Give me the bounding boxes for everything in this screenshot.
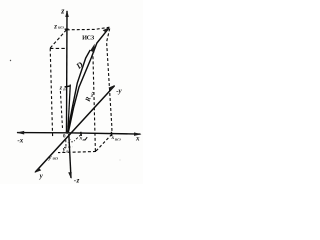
wire -z axis — [69, 134, 71, 178]
node arrowhead -x — [16, 131, 24, 135]
paper background — [0, 0, 143, 184]
svg-text:z: z — [59, 84, 63, 91]
svg-text:исз: исз — [115, 136, 121, 141]
wire dashed vertical edge of P box — [60, 91, 62, 130]
node arrowhead -z — [68, 172, 72, 179]
wire dashed y_p vertical — [65, 140, 67, 147]
node tick x_isz — [110, 132, 112, 136]
wire dashed base edge S' to y_isz — [58, 152, 96, 153]
svg-text:п: п — [83, 138, 85, 142]
svg-text:-x: -x — [17, 137, 23, 145]
svg-text:у: у — [62, 147, 66, 153]
wire dashed vertical S' up to satellite region — [93, 54, 96, 151]
svg-text:исз: исз — [53, 156, 59, 161]
node tick z_isz — [65, 28, 69, 30]
wire dashed top-left edge z_isz down-left to front corner — [50, 30, 67, 48]
wire dashed drop from satellite to x_isz — [107, 29, 112, 134]
node arrowhead D — [103, 27, 110, 32]
scan speckles — [10, 60, 11, 61]
svg-text:ИСЗ: ИСЗ — [82, 35, 95, 42]
svg-text:z: z — [53, 22, 57, 30]
wire z-axis — [66, 11, 69, 133]
node arrowhead +x — [134, 132, 142, 136]
svg-text:-y: -y — [116, 87, 122, 95]
svg-text:п: п — [71, 140, 73, 144]
node arrowhead z — [65, 10, 69, 17]
wire r_p (origin to point P) — [68, 85, 71, 134]
vector D (from origin bundle up to satellite corner) — [68, 28, 109, 133]
wire dashed x_p diag — [74, 135, 81, 141]
wire x-axis — [17, 133, 141, 135]
wire dashed horizontal corner to z-axis — [50, 47, 66, 49]
svg-text:-z: -z — [74, 175, 80, 184]
wire dashed front-left vertical box edge — [50, 48, 52, 136]
wire dashed top edge z_isz to satellite — [67, 27, 110, 30]
label R_isz — [84, 90, 95, 104]
wire dashed base edge x_isz to S' — [96, 134, 112, 151]
svg-text:у: у — [48, 154, 52, 161]
node arrowhead y — [34, 168, 41, 173]
wire dash fragment right of x_p — [85, 137, 87, 140]
node arrowhead -y — [109, 85, 116, 90]
node arrowhead R — [90, 44, 95, 53]
svg-text:п: п — [66, 149, 68, 153]
wire dashed y_p horizontal — [64, 146, 73, 149]
svg-text:исз: исз — [58, 25, 64, 30]
svg-text:x: x — [135, 135, 140, 143]
vector R_isz (from origin, slightly bent, arrow near dashed vertical) — [68, 50, 91, 133]
node origin knot — [66, 131, 69, 133]
node tick x_p — [80, 132, 83, 136]
node tick z_p — [65, 86, 70, 87]
wire y-axis — [35, 86, 114, 172]
